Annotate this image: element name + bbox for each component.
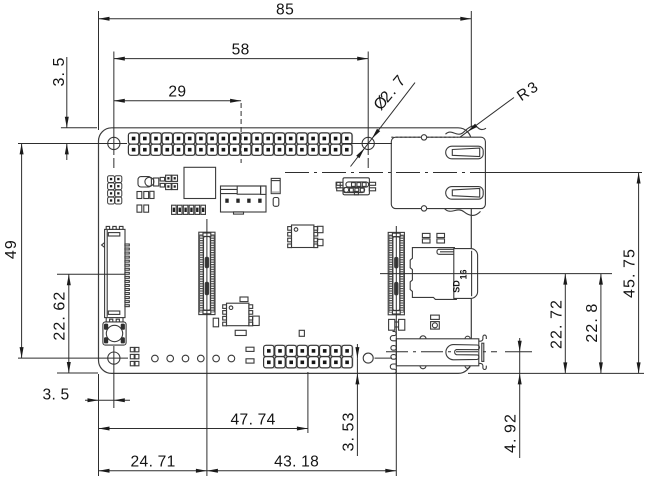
svg-text:49: 49: [3, 240, 20, 259]
svg-text:24.71: 24.71: [131, 454, 176, 471]
svg-text:16: 16: [459, 269, 469, 279]
svg-text:43.18: 43.18: [274, 454, 319, 471]
svg-text:3.53: 3.53: [340, 412, 357, 451]
svg-text:SD: SD: [451, 280, 461, 293]
svg-text:85: 85: [276, 2, 294, 19]
svg-text:29: 29: [168, 84, 186, 101]
svg-text:22.8: 22.8: [584, 304, 601, 343]
svg-text:58: 58: [232, 42, 250, 59]
svg-text:4.92: 4.92: [503, 414, 520, 453]
